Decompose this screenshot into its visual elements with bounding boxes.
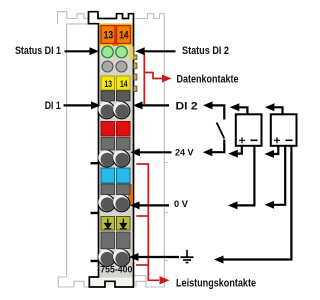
clamp circle 0V-2 [113, 195, 130, 212]
clamp circle 0V-1 [98, 195, 115, 212]
terminal number 14 yellow [117, 76, 131, 90]
clamp circle 24V-2 [113, 150, 130, 167]
svg-text:24 V: 24 V [175, 147, 194, 158]
address square 14 [117, 26, 131, 44]
arrow earth into module [129, 253, 139, 261]
PE olive square 2 [117, 217, 131, 231]
switch blade [217, 123, 225, 139]
gray circle 1 [102, 61, 113, 72]
address square 13 [101, 26, 115, 44]
clamp circle PE-1 [98, 249, 115, 266]
red squares row [101, 122, 115, 137]
wire Status DI 1 [65, 50, 91, 52]
wire G2 top [274, 107, 283, 114]
arrow G2 minus2 [214, 256, 224, 264]
arrow Status DI 2 [135, 47, 145, 55]
gray slot squares row2 [101, 138, 115, 151]
data contact tabs right [134, 55, 137, 92]
gray slot squares row4 [101, 232, 115, 249]
status LED DI2 [116, 46, 128, 58]
red rail Datenkontakte [144, 54, 162, 105]
svg-text:13: 13 [104, 30, 114, 42]
ghost module right: body edge [134, 14, 168, 287]
red arrow Datenkontakte [162, 75, 172, 83]
svg-text:DI 1: DI 1 [45, 100, 61, 112]
cyan squares row [101, 168, 115, 183]
G1 minus [251, 139, 258, 141]
wire G2 minus2 to earth [224, 146, 292, 260]
svg-text:Status DI 1: Status DI 1 [15, 45, 61, 57]
red rail Leistungskontakte [136, 164, 159, 280]
wire 0V [139, 204, 170, 206]
supply box G1 [236, 114, 262, 146]
arrow G1 minus [228, 201, 238, 209]
supply box G2 [271, 114, 297, 146]
clamp circle DI2 [113, 102, 130, 119]
arrow into DI 2 from switch [203, 101, 213, 109]
wire 24V [139, 151, 172, 153]
gray slot squares row3 [101, 184, 115, 195]
wire Status DI 2 [144, 50, 176, 52]
arrow Status DI 1 [90, 47, 100, 55]
G2 plus [274, 137, 280, 143]
arrow DI 1 [91, 101, 101, 109]
arrow DI 2 [133, 101, 143, 109]
wire DI 2 [142, 104, 170, 106]
svg-text:14: 14 [119, 30, 129, 42]
arrow G2 plus [265, 150, 275, 158]
status LED DI1 [102, 46, 114, 58]
yellow label field top [100, 24, 133, 46]
svg-text:755-400: 755-400 [100, 265, 132, 275]
PE symbols [104, 219, 127, 229]
ground symbol [181, 250, 194, 263]
wire G2 minus to 0V [273, 146, 285, 205]
arrow G2 top [265, 103, 275, 111]
module 755-400 body outline [89, 12, 134, 287]
G2 minus [286, 139, 293, 141]
gray circle 2 [116, 61, 127, 72]
svg-text:Leistungskontakte: Leistungskontakte [176, 278, 256, 290]
svg-text:0 V: 0 V [174, 199, 189, 210]
red arrow Leistungskontakte [160, 276, 170, 284]
arrow switch to 24V [203, 148, 213, 156]
module foot interior [90, 278, 132, 287]
module hat interior [90, 13, 133, 24]
module 755-400 body silhouette [89, 12, 134, 287]
orange side strip [128, 184, 133, 205]
svg-text:Datenkontakte: Datenkontakte [177, 73, 239, 85]
wire switch bottom [212, 140, 224, 153]
arrow 24V into module [130, 148, 140, 156]
wire G2 plus to 24V [273, 146, 278, 154]
ghost module left: body edge [58, 12, 98, 287]
clamp circle PE-2 [113, 249, 130, 266]
arrow G1 plus [228, 150, 238, 158]
dark slot squares row1 [101, 91, 115, 101]
wire G1 minus to 0V [237, 146, 255, 206]
PE olive square 1 [101, 217, 115, 231]
wire earth [138, 256, 180, 258]
G1 plus [239, 137, 245, 143]
yellow side strip [130, 47, 134, 60]
wire switch top [212, 105, 225, 119]
svg-text:Status DI 2: Status DI 2 [182, 45, 229, 57]
clamp circle 24V-1 [98, 150, 115, 167]
small orange notch [113, 42, 120, 47]
wire DI 1 [64, 104, 93, 106]
arrow G2 minus [265, 201, 275, 209]
power jumper contact ticks left [91, 162, 100, 262]
svg-text:DI 2: DI 2 [176, 100, 198, 112]
svg-text:13: 13 [105, 79, 113, 90]
terminal number 13 yellow [101, 76, 115, 90]
wire G1 top [239, 107, 248, 114]
wire G1 plus to 24V [237, 146, 242, 154]
arrow 0V into module [130, 201, 140, 209]
arrow G1 top [230, 103, 240, 111]
svg-text:14: 14 [120, 79, 128, 90]
clamp stems row1 [105, 100, 112, 104]
clamp circle DI1 [98, 102, 115, 119]
